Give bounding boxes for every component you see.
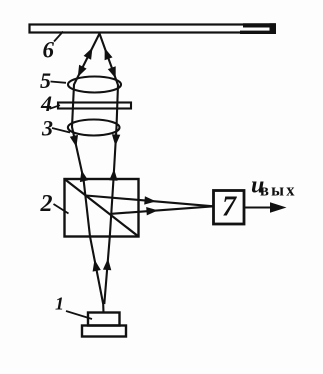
arrow left ray upward below cube [93,260,101,272]
lens 5 [68,77,121,93]
svg-text:вых: вых [260,181,297,200]
svg-text:6: 6 [43,38,55,63]
wire: right ray, mirror to laser [100,34,119,305]
svg-text:4: 4 [40,91,52,116]
arrow left ray downward below lens 3 [70,135,78,147]
arrow right ray downward below lens 3 [112,134,120,146]
photodetector box 7 [214,191,245,225]
wire: upper output ray to detector [86,196,214,207]
leader line for 5 [51,82,67,83]
svg-text:7: 7 [222,192,237,223]
svg-text:5: 5 [40,68,51,93]
svg-text:3: 3 [41,116,53,141]
plate 4 [58,103,131,109]
leader line for 1 [66,311,92,319]
svg-text:1: 1 [55,294,64,314]
arrow on upper output ray [144,196,156,204]
beam splitter cube 2 [65,179,139,237]
mirror bar right end cap [270,23,277,34]
arrow down-left branch from mirror [78,65,87,77]
leader line for 4 [50,105,61,109]
output arrow [244,206,278,208]
arrow right ray upward above cube [109,169,117,181]
arrow up-left branch toward mirror [84,48,93,60]
arrow up-right branch toward mirror [105,48,113,60]
mirror bar thick bottom-right edge [240,31,276,34]
leader line for 3 [52,128,70,133]
arrow right ray upward below cube [103,259,111,271]
laser 1 top body [88,313,120,326]
leader line for 2 [54,204,69,214]
svg-text:2: 2 [40,191,53,217]
cube diagonal [65,179,139,237]
arrow down-right branch from mirror [108,66,116,78]
laser 1 base [82,326,126,337]
wire: lower output ray to detector [111,206,213,214]
mirror bar 6 [30,25,275,33]
lens 3 [68,120,120,136]
wire: left ray, mirror to laser [72,34,104,314]
leader line for 6 [54,32,63,42]
arrow left ray upward above cube [80,170,88,182]
arrow on lower output ray [146,207,158,215]
